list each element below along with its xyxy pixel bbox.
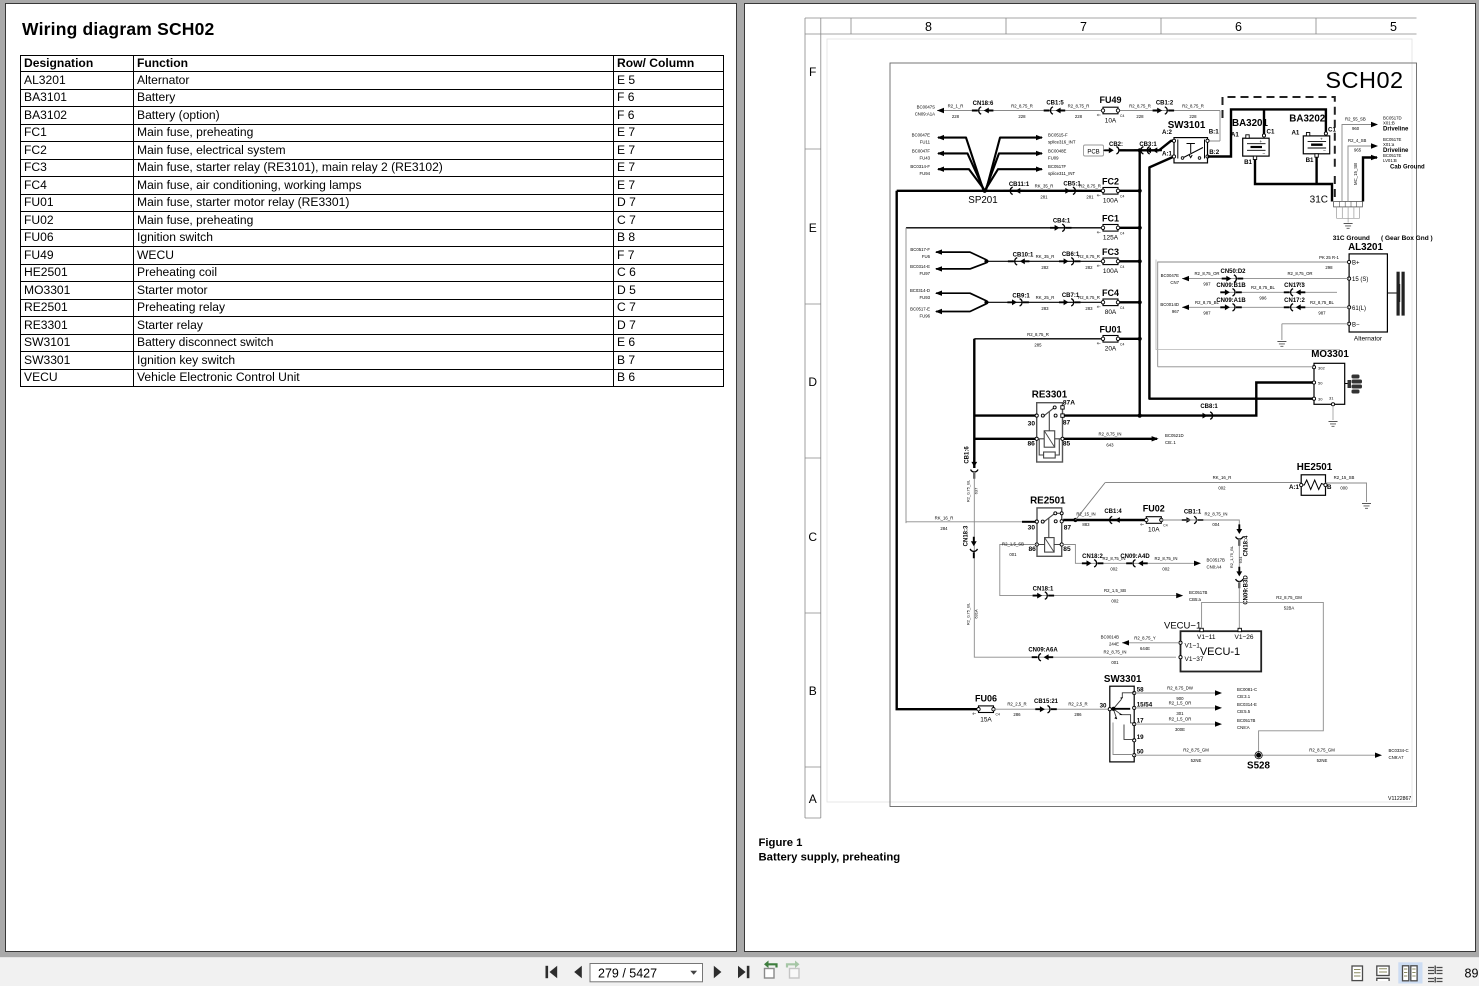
svg-text:31C: 31C bbox=[1310, 195, 1328, 206]
svg-text:R2_1,5_SB: R2_1,5_SB bbox=[1104, 588, 1126, 593]
svg-text:B:1: B:1 bbox=[1209, 128, 1220, 135]
svg-text:V1−1: V1−1 bbox=[1185, 642, 1201, 649]
svg-text:30: 30 bbox=[1100, 703, 1107, 710]
svg-text:BC0517B: BC0517B bbox=[1189, 590, 1208, 595]
svg-text:631A: 631A bbox=[974, 609, 979, 619]
svg-text:CB1:4: CB1:4 bbox=[1104, 509, 1122, 515]
svg-text:86: 86 bbox=[1029, 546, 1037, 553]
svg-text:R2_8,75_R: R2_8,75_R bbox=[1078, 295, 1100, 300]
svg-text:S528: S528 bbox=[1247, 761, 1270, 772]
svg-text:FU49: FU49 bbox=[1099, 95, 1121, 105]
svg-text:965: 965 bbox=[1354, 148, 1362, 153]
svg-text:228: 228 bbox=[1136, 114, 1144, 119]
svg-text:6: 6 bbox=[1235, 20, 1242, 34]
svg-text:−: − bbox=[1263, 151, 1266, 157]
svg-text:BC0047S: BC0047S bbox=[917, 105, 936, 110]
svg-text:CN17:2: CN17:2 bbox=[1284, 298, 1305, 304]
svg-text:RK_35_R: RK_35_R bbox=[1036, 254, 1055, 259]
svg-text:FU02: FU02 bbox=[1143, 504, 1165, 514]
svg-text:−: − bbox=[1323, 149, 1326, 155]
svg-text:PCB: PCB bbox=[1087, 150, 1099, 156]
svg-text:+: + bbox=[1320, 137, 1323, 142]
svg-text:R2_0,75_BL: R2_0,75_BL bbox=[966, 479, 971, 502]
svg-text:CN09:A1B: CN09:A1B bbox=[1216, 298, 1246, 304]
svg-text:HE2501: HE2501 bbox=[1297, 462, 1333, 473]
svg-text:BC0334-C: BC0334-C bbox=[1389, 748, 1409, 753]
svg-text:B1: B1 bbox=[1244, 159, 1252, 166]
svg-text:CB1:2: CB1:2 bbox=[1156, 101, 1174, 107]
svg-text:BC0517B: BC0517B bbox=[1207, 558, 1226, 563]
svg-text:61(L): 61(L) bbox=[1352, 306, 1366, 312]
svg-text:19: 19 bbox=[1137, 734, 1144, 741]
svg-text:58: 58 bbox=[1137, 687, 1144, 694]
svg-text:283: 283 bbox=[1041, 306, 1049, 311]
svg-text:BC0048E: BC0048E bbox=[1048, 148, 1067, 153]
svg-text:30: 30 bbox=[1318, 397, 1323, 402]
svg-text:CN09:A1A: CN09:A1A bbox=[915, 112, 935, 117]
svg-text:R2_8,75_IN: R2_8,75_IN bbox=[1205, 512, 1228, 517]
svg-text:30: 30 bbox=[1028, 421, 1036, 428]
svg-text:FU97: FU97 bbox=[919, 271, 930, 276]
svg-text:CN8:A: CN8:A bbox=[1237, 725, 1250, 730]
svg-text:splice311_INT: splice311_INT bbox=[1048, 171, 1076, 176]
svg-text:A1: A1 bbox=[1231, 132, 1239, 139]
svg-text:286: 286 bbox=[1074, 712, 1082, 717]
svg-text:B1: B1 bbox=[1306, 157, 1314, 164]
svg-text:A1: A1 bbox=[1291, 129, 1299, 136]
svg-text:E: E bbox=[809, 221, 817, 235]
svg-text:CB:.1: CB:.1 bbox=[1165, 440, 1176, 445]
svg-text:52BA: 52BA bbox=[1284, 605, 1295, 610]
svg-text:FU6: FU6 bbox=[922, 254, 931, 259]
svg-text:V1−26: V1−26 bbox=[1235, 634, 1254, 641]
svg-text:BC0314-E: BC0314-E bbox=[1237, 702, 1257, 707]
svg-text:FU06: FU06 bbox=[975, 694, 997, 704]
svg-text:001: 001 bbox=[1111, 660, 1119, 665]
svg-text:CN09:B3D: CN09:B3D bbox=[1244, 575, 1250, 605]
svg-text:CB15:21: CB15:21 bbox=[1034, 699, 1059, 705]
svg-text:BC0047E: BC0047E bbox=[912, 133, 931, 138]
svg-text:CB1:5: CB1:5 bbox=[1046, 101, 1064, 107]
svg-text:CB1:6: CB1:6 bbox=[965, 446, 971, 464]
svg-text:CN18:1: CN18:1 bbox=[1033, 587, 1054, 593]
svg-text:997: 997 bbox=[1203, 282, 1211, 287]
svg-text:634: 634 bbox=[1238, 556, 1243, 563]
svg-text:302: 302 bbox=[1318, 366, 1325, 371]
svg-text:R2_8,75_R: R2_8,75_R bbox=[1078, 254, 1100, 259]
svg-text:CB10:1: CB10:1 bbox=[1013, 253, 1034, 259]
svg-text:Alternator: Alternator bbox=[1354, 336, 1383, 343]
svg-text:X01:a: X01:a bbox=[1383, 142, 1395, 147]
svg-text:CB9:1: CB9:1 bbox=[1012, 294, 1030, 300]
svg-text:80A: 80A bbox=[1105, 309, 1117, 316]
svg-text:B+: B+ bbox=[1352, 261, 1360, 267]
svg-text:100A: 100A bbox=[1103, 198, 1119, 205]
svg-text:B: B bbox=[1327, 484, 1332, 491]
svg-text:15/54: 15/54 bbox=[1137, 701, 1153, 708]
svg-text:FC2: FC2 bbox=[1102, 177, 1119, 187]
svg-text:BC0314-F: BC0314-F bbox=[910, 164, 930, 169]
svg-text:002: 002 bbox=[1110, 567, 1118, 572]
svg-text:15 (S): 15 (S) bbox=[1352, 277, 1368, 283]
svg-text:CN18:3: CN18:3 bbox=[964, 525, 970, 546]
svg-text:BC0521D: BC0521D bbox=[1165, 433, 1184, 438]
svg-text:CN09:A6A: CN09:A6A bbox=[1028, 648, 1058, 654]
svg-text:SCH02: SCH02 bbox=[1325, 67, 1403, 93]
svg-text:643: 643 bbox=[1106, 443, 1114, 448]
svg-text:CN18:4: CN18:4 bbox=[1244, 535, 1250, 556]
svg-text:R2_8,75_DW: R2_8,75_DW bbox=[1167, 686, 1194, 691]
svg-text:R2_8,75_GM: R2_8,75_GM bbox=[1183, 748, 1209, 753]
svg-text:10A: 10A bbox=[1148, 527, 1160, 534]
svg-text:7: 7 bbox=[1080, 20, 1087, 34]
svg-text:31: 31 bbox=[1329, 396, 1334, 401]
svg-text:AL3201: AL3201 bbox=[1348, 242, 1383, 253]
svg-text:R2_8,75_R: R2_8,75_R bbox=[1027, 332, 1049, 337]
svg-text:R2_2,5_R: R2_2,5_R bbox=[1068, 702, 1087, 707]
svg-text:B:2: B:2 bbox=[1209, 149, 1220, 156]
svg-text:987: 987 bbox=[1203, 310, 1211, 315]
svg-text:R2_4_SB: R2_4_SB bbox=[1348, 138, 1367, 143]
svg-text:VECU−1: VECU−1 bbox=[1164, 620, 1201, 631]
svg-text:89: 89 bbox=[1465, 967, 1479, 981]
svg-text:RK_16_R: RK_16_R bbox=[1213, 475, 1232, 480]
svg-text:MO3301: MO3301 bbox=[1311, 349, 1349, 360]
svg-text:CN0:A4: CN0:A4 bbox=[1207, 565, 1223, 570]
svg-text:R2_8,75_IN: R2_8,75_IN bbox=[1103, 556, 1126, 561]
svg-text:FC1: FC1 bbox=[1102, 214, 1119, 224]
svg-text:30: 30 bbox=[1028, 525, 1036, 532]
svg-text:RK_35_R: RK_35_R bbox=[1035, 184, 1054, 189]
svg-text:( Gear Box Gnd ): ( Gear Box Gnd ) bbox=[1381, 235, 1433, 242]
svg-text:CB11:1: CB11:1 bbox=[1009, 182, 1030, 188]
svg-text:282: 282 bbox=[1085, 265, 1093, 270]
svg-text:50: 50 bbox=[1137, 749, 1144, 756]
svg-text:228: 228 bbox=[1018, 114, 1026, 119]
svg-text:20A: 20A bbox=[1105, 346, 1117, 353]
svg-text:87: 87 bbox=[1063, 419, 1071, 426]
svg-text:002: 002 bbox=[1162, 567, 1170, 572]
svg-text:86: 86 bbox=[1028, 441, 1036, 448]
svg-text:002: 002 bbox=[1218, 486, 1226, 491]
svg-text:R2_8,75_OR: R2_8,75_OR bbox=[1194, 271, 1219, 276]
svg-text:281: 281 bbox=[1086, 195, 1094, 200]
svg-text:R2_8,75_BL: R2_8,75_BL bbox=[1195, 300, 1220, 305]
svg-text:Driveline: Driveline bbox=[1383, 148, 1409, 154]
svg-text:A:1: A:1 bbox=[1289, 484, 1300, 491]
svg-text:V1−11: V1−11 bbox=[1197, 634, 1216, 641]
svg-text:MC_15_SB: MC_15_SB bbox=[1353, 163, 1358, 185]
svg-text:52NE: 52NE bbox=[1191, 758, 1202, 763]
svg-text:FU93: FU93 bbox=[919, 295, 930, 300]
svg-text:282: 282 bbox=[1041, 265, 1049, 270]
svg-text:BC0047E: BC0047E bbox=[1161, 273, 1180, 278]
svg-text:R2_8,75_OR: R2_8,75_OR bbox=[1287, 271, 1312, 276]
svg-text:BC0515-F: BC0515-F bbox=[1048, 133, 1068, 138]
svg-text:R2_55_SB: R2_55_SB bbox=[1345, 117, 1366, 122]
svg-text:BC0314-D: BC0314-D bbox=[910, 288, 930, 293]
svg-text:228: 228 bbox=[952, 114, 960, 119]
svg-text:A: A bbox=[809, 792, 817, 806]
svg-text:RE2501: RE2501 bbox=[1030, 496, 1066, 507]
svg-text:D: D bbox=[808, 375, 817, 389]
svg-text:281: 281 bbox=[1040, 195, 1048, 200]
svg-text:283: 283 bbox=[1085, 306, 1093, 311]
svg-text:R2_1,5_OR: R2_1,5_OR bbox=[1169, 717, 1192, 722]
svg-text:CB6:1: CB6:1 bbox=[1062, 252, 1080, 258]
svg-text:CB8:1: CB8:1 bbox=[1200, 404, 1218, 410]
svg-text:CN50:D2: CN50:D2 bbox=[1220, 269, 1246, 275]
svg-text:R2_8,75_Y: R2_8,75_Y bbox=[1134, 635, 1156, 640]
svg-text:FU11: FU11 bbox=[920, 140, 931, 145]
svg-text:R2_8,75_IN: R2_8,75_IN bbox=[1104, 650, 1127, 655]
svg-text:125A: 125A bbox=[1103, 235, 1119, 242]
svg-text:R2_8,75_BL: R2_8,75_BL bbox=[1310, 300, 1335, 305]
svg-text:BC0517B: BC0517B bbox=[1237, 718, 1256, 723]
svg-text:CN9:A7: CN9:A7 bbox=[1389, 755, 1405, 760]
svg-text:87: 87 bbox=[1064, 525, 1072, 532]
svg-text:004: 004 bbox=[1212, 522, 1220, 527]
svg-text:960: 960 bbox=[1352, 126, 1360, 131]
svg-text:CN7: CN7 bbox=[1170, 280, 1179, 285]
svg-text:FC4: FC4 bbox=[1102, 288, 1119, 298]
svg-text:FU94: FU94 bbox=[919, 171, 930, 176]
svg-text:100A: 100A bbox=[1103, 268, 1119, 275]
svg-text:C1: C1 bbox=[1328, 126, 1336, 133]
svg-text:279 / 5427: 279 / 5427 bbox=[598, 967, 657, 981]
svg-text:CN18:6: CN18:6 bbox=[973, 101, 994, 107]
svg-text:BC0014B: BC0014B bbox=[1101, 634, 1120, 639]
svg-text:284: 284 bbox=[940, 526, 948, 531]
svg-text:V1122867: V1122867 bbox=[1388, 796, 1411, 802]
svg-text:R2_15_SB: R2_15_SB bbox=[1334, 475, 1355, 480]
svg-text:CB:5.5: CB:5.5 bbox=[1237, 709, 1251, 714]
svg-text:BA3202: BA3202 bbox=[1289, 114, 1325, 125]
svg-text:15A: 15A bbox=[980, 717, 992, 724]
svg-text:F: F bbox=[809, 65, 816, 79]
svg-text:R2_8,75_IN: R2_8,75_IN bbox=[1155, 556, 1178, 561]
svg-text:CB5:a: CB5:a bbox=[1189, 597, 1202, 602]
svg-text:B−: B− bbox=[1352, 322, 1360, 328]
svg-text:R2_15_IN: R2_15_IN bbox=[1076, 512, 1095, 517]
svg-text:5: 5 bbox=[1390, 20, 1397, 34]
svg-text:CN09:B1B: CN09:B1B bbox=[1216, 283, 1246, 289]
svg-text:BC0047F: BC0047F bbox=[912, 148, 931, 153]
svg-text:286: 286 bbox=[1013, 712, 1021, 717]
svg-text:000: 000 bbox=[1340, 486, 1348, 491]
svg-text:FU43: FU43 bbox=[919, 155, 930, 160]
svg-text:967: 967 bbox=[1172, 309, 1180, 314]
svg-text:001: 001 bbox=[1009, 552, 1017, 557]
svg-text:BC0081-C: BC0081-C bbox=[1237, 687, 1257, 692]
svg-text:637: 637 bbox=[974, 487, 979, 494]
svg-text:301: 301 bbox=[1176, 711, 1184, 716]
svg-text:C: C bbox=[808, 530, 817, 544]
svg-text:PK 25 R-1: PK 25 R-1 bbox=[1319, 255, 1339, 260]
svg-text:R2_8,75_BL: R2_8,75_BL bbox=[1251, 285, 1276, 290]
svg-text:CB4:1: CB4:1 bbox=[1053, 219, 1071, 225]
svg-text:R2_8,75_GM: R2_8,75_GM bbox=[1276, 595, 1302, 600]
svg-text:883: 883 bbox=[1082, 522, 1090, 527]
svg-text:996: 996 bbox=[1259, 295, 1267, 300]
svg-text:R2_1,75_BL: R2_1,75_BL bbox=[1229, 545, 1234, 568]
svg-text:R2_8,75_IN: R2_8,75_IN bbox=[1099, 432, 1122, 437]
svg-text:Driveline: Driveline bbox=[1383, 127, 1409, 133]
svg-text:285: 285 bbox=[1034, 342, 1042, 347]
svg-text:644E: 644E bbox=[1140, 646, 1150, 651]
svg-text:R2_8,75_R: R2_8,75_R bbox=[1079, 184, 1101, 189]
svg-text:85: 85 bbox=[1063, 546, 1071, 553]
svg-text:A:2: A:2 bbox=[1162, 129, 1173, 136]
svg-text:R2_8,75_R: R2_8,75_R bbox=[1129, 104, 1151, 109]
svg-text:R2_8,75_R: R2_8,75_R bbox=[1011, 104, 1033, 109]
svg-text:8: 8 bbox=[925, 20, 932, 34]
svg-text:Battery supply, preheating: Battery supply, preheating bbox=[759, 852, 901, 864]
svg-text:FC3: FC3 bbox=[1102, 247, 1119, 257]
svg-text:244E: 244E bbox=[1109, 641, 1119, 646]
svg-text:SW3101: SW3101 bbox=[1168, 120, 1206, 131]
svg-text:FU96: FU96 bbox=[919, 314, 930, 319]
svg-text:C1: C1 bbox=[1267, 129, 1275, 136]
svg-text:002: 002 bbox=[1111, 598, 1119, 603]
svg-text:R2_8,75_R: R2_8,75_R bbox=[1068, 104, 1090, 109]
svg-text:CB2:: CB2: bbox=[1109, 142, 1123, 148]
svg-text:VECU-1: VECU-1 bbox=[1200, 646, 1240, 658]
svg-text:52NE: 52NE bbox=[1317, 758, 1328, 763]
svg-text:BA3201: BA3201 bbox=[1232, 118, 1268, 129]
svg-text:85: 85 bbox=[1063, 441, 1071, 448]
svg-text:V1−37: V1−37 bbox=[1185, 656, 1204, 663]
svg-text:987: 987 bbox=[1318, 310, 1326, 315]
svg-text:CB7:1: CB7:1 bbox=[1062, 293, 1080, 299]
svg-text:228: 228 bbox=[1075, 114, 1083, 119]
svg-text:X01:B: X01:B bbox=[1383, 121, 1395, 126]
svg-text:LV01:B: LV01:B bbox=[1383, 158, 1397, 163]
svg-text:997: 997 bbox=[1296, 282, 1304, 287]
svg-text:splice316_INT: splice316_INT bbox=[1048, 140, 1076, 145]
svg-text:300E: 300E bbox=[1175, 727, 1185, 732]
svg-text:R2_1_R: R2_1_R bbox=[948, 104, 964, 109]
svg-text:CN18:2: CN18:2 bbox=[1082, 554, 1103, 560]
svg-text:298: 298 bbox=[1325, 265, 1333, 270]
svg-text:SW3301: SW3301 bbox=[1104, 674, 1142, 685]
svg-text:FU09: FU09 bbox=[1048, 155, 1059, 160]
svg-text:BC0314-E: BC0314-E bbox=[910, 264, 930, 269]
svg-text:228: 228 bbox=[1189, 114, 1197, 119]
svg-text:R2_2,5_R: R2_2,5_R bbox=[1007, 702, 1026, 707]
svg-text:BC0517-E: BC0517-E bbox=[910, 307, 930, 312]
svg-text:Figure 1: Figure 1 bbox=[759, 837, 803, 849]
svg-text:SP201: SP201 bbox=[968, 195, 997, 206]
svg-text:R2_1,5_OR: R2_1,5_OR bbox=[1169, 700, 1192, 705]
svg-text:R2_8,75_GM: R2_8,75_GM bbox=[1309, 748, 1335, 753]
svg-text:BC0517F: BC0517F bbox=[1048, 164, 1067, 169]
svg-text:RK_25_R: RK_25_R bbox=[1036, 295, 1055, 300]
svg-text:17: 17 bbox=[1137, 718, 1144, 725]
svg-text:RK_16_R: RK_16_R bbox=[935, 516, 954, 521]
svg-text:R2_1,5_SB: R2_1,5_SB bbox=[1002, 542, 1024, 547]
svg-text:BC0517-F: BC0517-F bbox=[910, 247, 930, 252]
svg-text:R2_8,75_R: R2_8,75_R bbox=[1182, 104, 1204, 109]
svg-text:Cab Ground: Cab Ground bbox=[1390, 165, 1425, 171]
svg-text:CB:3.1: CB:3.1 bbox=[1237, 694, 1251, 699]
svg-text:A:1: A:1 bbox=[1162, 150, 1173, 157]
svg-text:+: + bbox=[1260, 139, 1263, 144]
svg-text:CB1:1: CB1:1 bbox=[1184, 510, 1202, 516]
svg-text:FU01: FU01 bbox=[1099, 325, 1121, 335]
svg-text:R2_0,75_BL: R2_0,75_BL bbox=[966, 602, 971, 625]
svg-text:BC0014D: BC0014D bbox=[1160, 302, 1179, 307]
svg-text:87A: 87A bbox=[1063, 400, 1075, 407]
svg-text:10A: 10A bbox=[1105, 118, 1117, 125]
svg-text:B: B bbox=[809, 684, 817, 698]
svg-text:31C Ground: 31C Ground bbox=[1333, 235, 1370, 242]
svg-text:50: 50 bbox=[1318, 381, 1323, 386]
